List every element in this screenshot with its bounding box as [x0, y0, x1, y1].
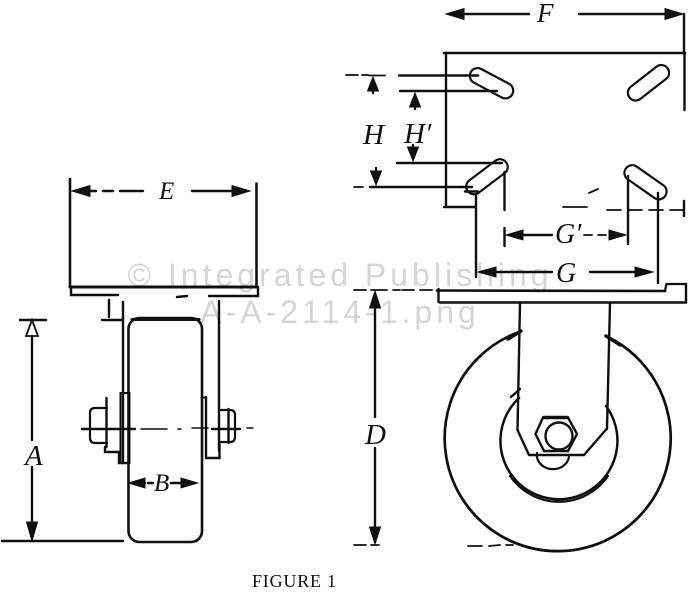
svg-text:G′: G′: [555, 219, 582, 250]
svg-text:H: H: [362, 119, 386, 151]
svg-text:H′: H′: [403, 118, 432, 150]
svg-text:B: B: [154, 470, 169, 497]
svg-text:A: A: [23, 440, 43, 472]
svg-text:F: F: [536, 0, 554, 28]
svg-text:D: D: [364, 419, 386, 451]
svg-text:E: E: [158, 178, 174, 205]
svg-text:FIGURE 1: FIGURE 1: [252, 571, 337, 589]
svg-text:G: G: [556, 258, 576, 289]
